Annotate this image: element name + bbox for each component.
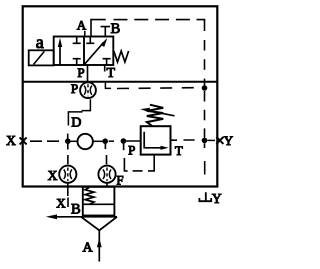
dashed line dot to F test point bbox=[105, 143, 106, 164]
svg-text:F: F bbox=[116, 172, 123, 187]
solenoid diagonal stroke bbox=[34, 51, 45, 64]
dashed dog-leg second corner bbox=[68, 112, 82, 126]
port Y plug cross bbox=[216, 137, 223, 144]
dashed relief drain U line bbox=[123, 143, 125, 150]
check valve spring bbox=[85, 188, 94, 205]
svg-text:P: P bbox=[128, 143, 135, 158]
valve return spring W bbox=[114, 51, 129, 62]
dashed pilot line corner top right bbox=[197, 20, 205, 31]
junction dot left bbox=[65, 138, 71, 144]
drain to tank symbol Y bbox=[199, 192, 211, 201]
valve right position blocked port bottom bbox=[103, 59, 111, 65]
wire F test point to block edge bbox=[106, 183, 108, 187]
pilot valve position divider bbox=[83, 37, 85, 66]
check valve internal line bbox=[83, 203, 115, 205]
check valve body bbox=[83, 187, 115, 216]
relief valve adjustment arrow bbox=[147, 110, 175, 115]
test X inner dashed vertical bbox=[67, 168, 69, 181]
relief valve V1 body bbox=[141, 126, 171, 154]
valve left position blocked port bottom bbox=[73, 59, 81, 65]
svg-text:B: B bbox=[71, 202, 81, 218]
svg-text:T: T bbox=[175, 143, 183, 158]
port A flow arrow bbox=[97, 238, 102, 247]
gauge inner left arc bbox=[84, 86, 86, 95]
gauge inner right arc bbox=[90, 86, 92, 95]
svg-text:A: A bbox=[77, 18, 87, 33]
test F inner left arc bbox=[103, 169, 105, 179]
svg-text:X: X bbox=[48, 168, 58, 183]
svg-text:Y: Y bbox=[212, 191, 222, 206]
dashed relief T line to Y bbox=[171, 139, 194, 141]
svg-text:P: P bbox=[71, 81, 78, 96]
wire X test point down through block edge bbox=[67, 183, 69, 196]
gauge test coupling circle bbox=[80, 82, 96, 98]
test coupling X circle bbox=[59, 166, 76, 183]
valve right position blocked port top bbox=[86, 37, 94, 44]
junction dot at relief P bbox=[121, 138, 127, 144]
port X plug cross bbox=[20, 137, 27, 144]
wire X test stub lower bbox=[67, 198, 69, 208]
relief valve spring bbox=[147, 105, 163, 126]
dashed vertical below Y dot bbox=[204, 143, 206, 174]
dashed line dot to X test point bbox=[67, 143, 69, 164]
check valve poppet seat triangle bbox=[81, 217, 117, 231]
svg-text:D: D bbox=[71, 115, 81, 130]
svg-text:Y: Y bbox=[224, 133, 234, 148]
dashed dog-leg from gauge down bbox=[82, 99, 91, 110]
valve left position up-flow arrow bbox=[59, 44, 61, 65]
svg-text:X: X bbox=[56, 196, 66, 211]
relief valve internal flow path arrow bbox=[144, 132, 164, 148]
dash toward P dot bbox=[109, 140, 114, 142]
pilot line corner from valve to dashed B line bbox=[91, 20, 106, 37]
wire valve T port stub bbox=[104, 65, 106, 72]
wire dot to orifice bbox=[70, 140, 78, 142]
dashed pilot line right vertical upper bbox=[204, 40, 206, 86]
pilot valve U1 body bbox=[54, 37, 114, 66]
test F inner right arc bbox=[109, 169, 111, 179]
valve left position blocked port top bbox=[73, 37, 81, 44]
solenoid a box bbox=[29, 50, 54, 65]
manifold block outline bbox=[23, 6, 218, 186]
valve right position diagonal flow arrow bbox=[85, 43, 104, 65]
svg-text:a: a bbox=[36, 32, 44, 52]
plugged port B cap bbox=[101, 27, 110, 36]
dashed T drain line to right bbox=[117, 87, 202, 90]
block divider line bbox=[23, 81, 218, 83]
svg-text:P: P bbox=[77, 65, 84, 80]
T drain corner below divider bbox=[105, 82, 111, 89]
wire valve P port down bbox=[87, 65, 89, 82]
svg-text:A: A bbox=[82, 241, 93, 256]
junction dot mid bbox=[102, 138, 108, 144]
dash to Y port bbox=[208, 139, 216, 141]
test X inner left arc bbox=[64, 169, 66, 179]
svg-text:B: B bbox=[111, 21, 121, 37]
wire to relief valve P bbox=[123, 140, 140, 142]
wire orifice to dot bbox=[93, 140, 103, 142]
gauge inner dashed vertical bbox=[87, 84, 89, 96]
port A stub bbox=[84, 31, 86, 37]
test X inner right arc bbox=[70, 169, 72, 179]
dashed pilot line top horizontal bbox=[114, 19, 197, 21]
dashed vertical to pilot line bbox=[67, 134, 69, 140]
junction dot right at Y bbox=[202, 138, 208, 144]
test F inner dashed vertical bbox=[106, 168, 108, 181]
junction dot upper right bbox=[202, 85, 208, 91]
dashed pilot line from X bbox=[30, 140, 59, 142]
svg-text:T: T bbox=[107, 66, 116, 81]
port A line bbox=[98, 230, 100, 261]
dashed pilot line right vertical mid bbox=[204, 91, 206, 138]
orifice D circle bbox=[78, 134, 93, 149]
port B flow line with arrow bbox=[56, 216, 117, 218]
test coupling F circle bbox=[98, 166, 115, 183]
svg-text:X: X bbox=[6, 133, 16, 148]
